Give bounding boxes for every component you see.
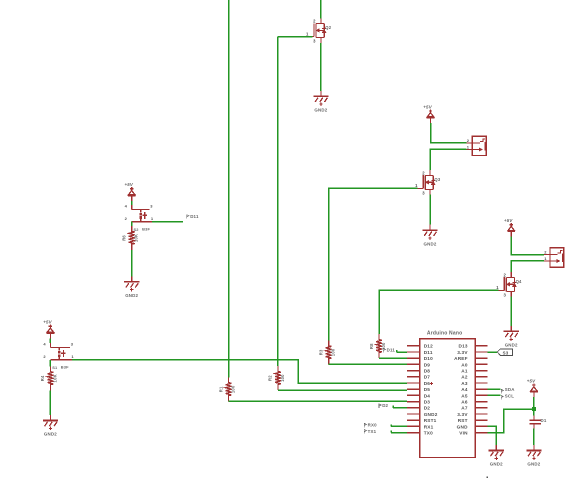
wire R8 to Arduino D10 xyxy=(379,357,407,359)
wire +5V to S2 pin4 xyxy=(131,201,133,205)
wire Q2 source to ground xyxy=(320,43,322,91)
wire R3 to Arduino D9 xyxy=(329,363,407,365)
+5V supply P1 xyxy=(128,187,136,201)
svg-text:SDA: SDA xyxy=(505,387,515,392)
ground GND2 below R6 xyxy=(124,276,139,291)
wire tick net RX0 xyxy=(390,424,392,426)
svg-text:GND2: GND2 xyxy=(125,293,138,298)
+5V supply P5 xyxy=(530,383,538,397)
+5V supply P3 xyxy=(427,109,435,123)
wire +5V to K2 pin2 xyxy=(511,237,544,255)
svg-text:GND: GND xyxy=(457,424,468,429)
wire S2 pin1 net D11 xyxy=(152,221,183,223)
wire GND pin to ground xyxy=(488,426,497,445)
wire K1 pin1 to Q3 drain xyxy=(430,149,466,170)
pin S2-4 lead xyxy=(131,205,133,210)
svg-text:+5V: +5V xyxy=(43,320,52,325)
wire +5V to S1 pin4 xyxy=(49,338,51,342)
svg-text:Q3: Q3 xyxy=(434,177,440,182)
capacitor D1 xyxy=(530,416,541,429)
svg-text:RST: RST xyxy=(458,418,468,423)
svg-text:A6: A6 xyxy=(461,400,468,405)
svg-text:GND2: GND2 xyxy=(424,412,438,417)
svg-text:S3: S3 xyxy=(503,350,509,355)
wire S2 pin2 down xyxy=(131,222,133,226)
wire tick net D11 xyxy=(396,350,398,352)
svg-text:2: 2 xyxy=(125,216,128,221)
resistor R2 100 xyxy=(275,366,281,390)
pin K2-1 stub xyxy=(544,260,550,262)
svg-text:Arduino Nano: Arduino Nano xyxy=(427,330,462,336)
svg-text:D3: D3 xyxy=(424,400,431,405)
svg-text:3.3V: 3.3V xyxy=(457,412,468,417)
Arduino pin stubs xyxy=(407,346,488,433)
svg-text:3: 3 xyxy=(422,190,425,195)
op-amp U1 Arduino Nano box xyxy=(420,339,475,458)
transistor Q4 xyxy=(499,272,517,297)
svg-text:D12: D12 xyxy=(424,344,433,349)
svg-text:D10: D10 xyxy=(424,356,433,361)
wire R4 to ground xyxy=(49,390,51,415)
svg-text:GND2: GND2 xyxy=(314,107,327,112)
svg-text:D1: D1 xyxy=(541,418,547,423)
ground GND2 below Arduino xyxy=(489,445,504,460)
svg-text:Q4: Q4 xyxy=(516,279,522,284)
wire stub net D11 at pin D11 xyxy=(397,351,407,353)
svg-text:RX0: RX0 xyxy=(368,423,377,428)
svg-text:R3: R3 xyxy=(318,349,323,355)
svg-text:B3F: B3F xyxy=(61,365,69,370)
svg-text:VIN: VIN xyxy=(459,431,468,436)
resistor R8 100 xyxy=(376,334,382,358)
wire stub net SDA at pin A4 xyxy=(488,388,501,390)
pin K1-1 stub xyxy=(466,148,472,150)
wire S1 pin2 down xyxy=(49,360,51,367)
connector K1 xyxy=(466,136,486,155)
wire net1 vertical from top to R1 xyxy=(228,0,230,377)
wire VIN pin to +5V junction xyxy=(488,409,534,433)
wire R6 to ground xyxy=(131,250,133,276)
svg-text:10K: 10K xyxy=(52,374,57,382)
ground GND2 below Q4 xyxy=(504,326,519,341)
wire Q3 source to ground xyxy=(429,195,431,225)
transistor Q2 xyxy=(308,18,326,43)
svg-text:+5V: +5V xyxy=(504,218,513,223)
pin S1-4 lead xyxy=(49,343,51,348)
svg-text:GND2: GND2 xyxy=(505,343,518,348)
wire R2 to Arduino D5 xyxy=(278,389,407,391)
svg-text:A4: A4 xyxy=(461,387,468,392)
svg-text:GND2: GND2 xyxy=(527,462,540,467)
wire stub net TX1 at pin TX0 xyxy=(391,432,407,434)
svg-text:Q2: Q2 xyxy=(325,25,331,30)
svg-text:AREF: AREF xyxy=(454,356,468,361)
svg-text:4: 4 xyxy=(43,342,46,347)
svg-text:D6: D6 xyxy=(424,381,431,386)
svg-text:A1: A1 xyxy=(461,369,468,374)
svg-text:+5V: +5V xyxy=(423,104,432,109)
ground GND2 below Q3 xyxy=(422,225,437,240)
wire Q4 gate to R8 xyxy=(379,290,499,334)
svg-text:D5: D5 xyxy=(424,387,431,392)
transistor Q3 xyxy=(417,170,435,195)
svg-text:2: 2 xyxy=(544,250,547,255)
svg-text:S1: S1 xyxy=(52,365,58,370)
resistor R4 10K xyxy=(48,366,54,390)
red cross mark at pin D6 xyxy=(430,382,433,385)
svg-text:100: 100 xyxy=(331,348,336,356)
xref tag S3 xyxy=(497,349,512,356)
wire Q4 source to ground xyxy=(510,297,512,326)
svg-text:2: 2 xyxy=(422,171,425,176)
svg-text:D11: D11 xyxy=(424,350,433,355)
svg-text:A7: A7 xyxy=(461,406,468,411)
svg-text:RST1: RST1 xyxy=(424,418,437,423)
svg-text:2: 2 xyxy=(503,273,506,278)
pushbutton S2 xyxy=(132,205,150,222)
connector K2 xyxy=(544,248,564,267)
svg-text:100: 100 xyxy=(280,374,285,382)
wire stub net RX0 at pin RX1 xyxy=(391,425,407,427)
resistor R1 100 xyxy=(226,377,232,401)
wire capacitor to ground xyxy=(533,429,535,445)
svg-text:1: 1 xyxy=(496,285,499,290)
pin K2-2 stub xyxy=(544,254,550,256)
svg-text:R6: R6 xyxy=(122,235,127,241)
wire Q3 gate to R3 xyxy=(329,188,418,340)
+5V supply P4 xyxy=(507,223,515,237)
svg-text:3: 3 xyxy=(313,38,316,43)
wire stub net D2 at pin D2 xyxy=(393,407,407,409)
svg-text:D9: D9 xyxy=(424,362,431,367)
svg-text:3: 3 xyxy=(71,342,74,347)
svg-text:4: 4 xyxy=(125,203,128,208)
wire Q2 drain from top xyxy=(320,0,322,18)
svg-text:GND2: GND2 xyxy=(490,462,503,467)
wire stub net SCL at pin A5 xyxy=(488,394,501,396)
svg-text:B3F: B3F xyxy=(142,227,150,232)
wire R1 to Arduino D3 xyxy=(229,400,407,402)
svg-text:D4: D4 xyxy=(424,393,431,398)
ground GND2 below capacitor xyxy=(526,445,541,460)
+5V supply P2 xyxy=(47,325,55,339)
svg-text:1: 1 xyxy=(415,183,418,188)
svg-text:+5V: +5V xyxy=(527,378,536,383)
svg-text:2: 2 xyxy=(43,354,46,359)
svg-text:A3: A3 xyxy=(461,381,468,386)
svg-text:R8: R8 xyxy=(369,343,374,349)
svg-text:1: 1 xyxy=(467,145,470,150)
svg-text:3: 3 xyxy=(503,292,506,297)
junction node xyxy=(532,407,536,411)
svg-text:RX1: RX1 xyxy=(424,424,434,429)
svg-text:D2: D2 xyxy=(424,406,431,411)
wire stub net S3 at pin 3.3V xyxy=(488,351,498,353)
svg-text:S2: S2 xyxy=(134,227,140,232)
svg-text:2: 2 xyxy=(467,138,470,143)
pin K1-2 stub xyxy=(466,142,472,144)
svg-text:A5: A5 xyxy=(461,393,468,398)
svg-text:A2: A2 xyxy=(461,375,468,380)
wire +5V to K1 pin2 xyxy=(431,123,467,143)
svg-text:D8: D8 xyxy=(424,369,431,374)
resistor R6 10K xyxy=(129,226,135,250)
resistor R3 100 xyxy=(326,340,332,364)
wire tick net TX1 xyxy=(390,431,392,433)
svg-text:R4: R4 xyxy=(40,375,45,381)
svg-text:D13: D13 xyxy=(458,344,467,349)
wire Q2 gate to R2 vertical xyxy=(277,37,279,367)
pushbutton S1 xyxy=(50,343,70,360)
wire tick net D2 xyxy=(392,406,394,408)
stray dot mark xyxy=(486,476,488,478)
svg-text:3: 3 xyxy=(150,203,153,208)
svg-text:+5V: +5V xyxy=(125,182,134,187)
svg-text:1: 1 xyxy=(71,354,74,359)
wire +5V to junction and capacitor xyxy=(533,397,535,416)
svg-text:A0: A0 xyxy=(461,362,468,367)
svg-text:1: 1 xyxy=(306,31,309,36)
svg-text:10K: 10K xyxy=(134,234,139,242)
ground GND2 below Q2 xyxy=(313,91,328,106)
svg-text:D2: D2 xyxy=(382,403,388,408)
svg-text:100: 100 xyxy=(230,385,235,393)
svg-text:GND2: GND2 xyxy=(44,432,57,437)
svg-text:1: 1 xyxy=(544,256,547,261)
pin S1-1 stub xyxy=(70,359,72,361)
pin S2-1 stub xyxy=(150,221,152,223)
svg-text:TX0: TX0 xyxy=(424,431,433,436)
svg-text:GND2: GND2 xyxy=(424,241,437,246)
wire Q2 gate xyxy=(278,36,312,38)
svg-text:D11: D11 xyxy=(387,348,396,353)
svg-text:D7: D7 xyxy=(424,375,431,380)
svg-text:3.3V: 3.3V xyxy=(457,350,468,355)
svg-text:R2: R2 xyxy=(268,375,273,381)
ground GND2 below R4 xyxy=(43,415,58,430)
svg-text:2: 2 xyxy=(313,19,316,24)
svg-text:SCL: SCL xyxy=(505,393,514,398)
svg-text:TX1: TX1 xyxy=(368,429,377,434)
svg-text:1: 1 xyxy=(151,216,154,221)
wire S1 pin1 to Arduino D6 xyxy=(72,360,407,383)
svg-text:D11: D11 xyxy=(190,214,199,219)
svg-text:R1: R1 xyxy=(218,386,223,392)
wire K2 pin1 to Q4 drain xyxy=(511,261,544,272)
